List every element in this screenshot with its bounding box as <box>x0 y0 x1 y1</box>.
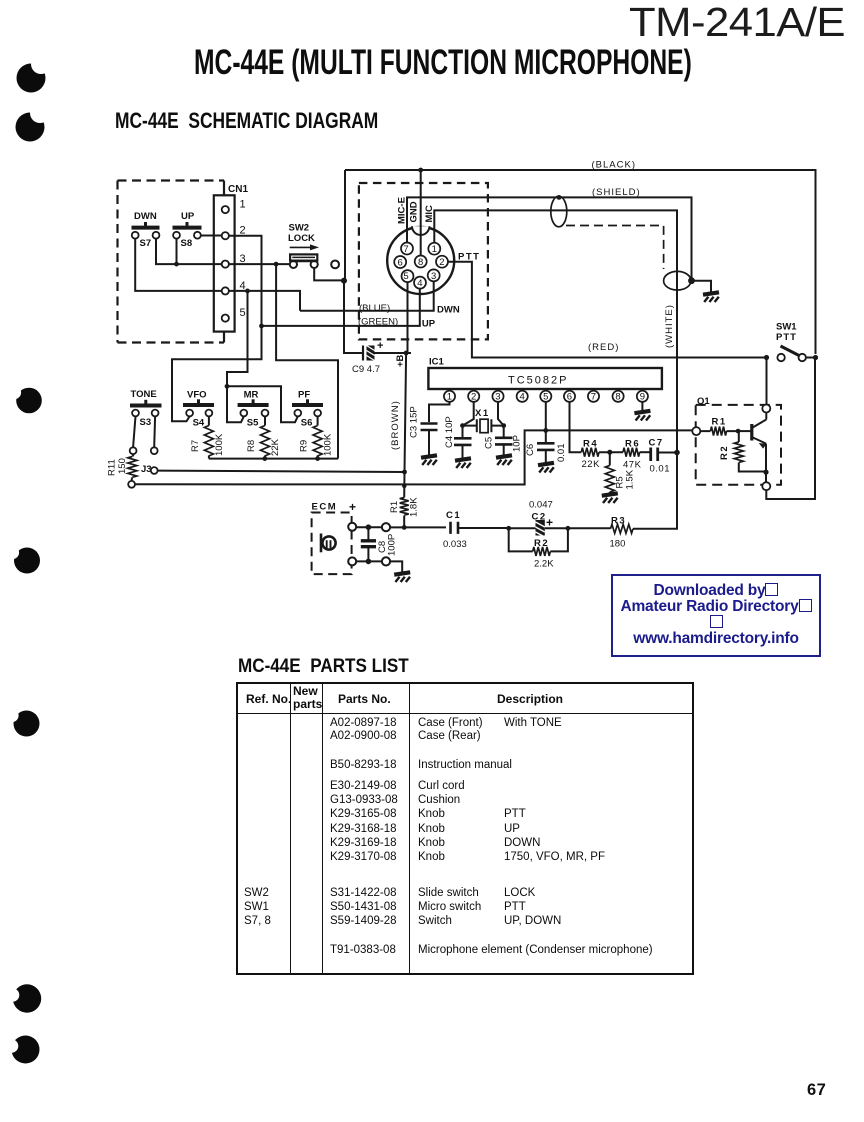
wire BLACK: pin8/GND riser top rail to SW1 right <box>345 170 816 354</box>
IC1 pin 6 <box>569 389 571 391</box>
svg-text:X1: X1 <box>475 408 490 419</box>
svg-text:6: 6 <box>567 392 572 403</box>
svg-text:C7: C7 <box>649 438 664 449</box>
svg-text:5: 5 <box>403 271 408 282</box>
svg-text:3: 3 <box>431 271 436 282</box>
wire CN1 pin3 net to SW2 <box>229 263 290 265</box>
svg-text:0.047: 0.047 <box>529 500 553 511</box>
wire SHIELD: pin7 riser right to drop <box>407 197 692 280</box>
svg-text:22K: 22K <box>582 459 601 470</box>
svg-text:0.01: 0.01 <box>556 444 567 463</box>
resistor rail (pin3 net) <box>209 458 338 460</box>
svg-text:2: 2 <box>471 392 476 403</box>
CN1 pin 4 <box>222 287 229 294</box>
subheading MC-44E SCHEMATIC DIAGRAM <box>115 108 378 134</box>
IC1 pin 5 <box>545 389 547 391</box>
svg-text:+: + <box>349 500 356 514</box>
svg-text:DWN: DWN <box>134 211 157 222</box>
wire shield to ground <box>692 281 712 292</box>
wire emitter return to SW1 right <box>766 358 815 500</box>
wire CN1 pin2 net <box>172 236 262 418</box>
svg-text:1.8K: 1.8K <box>409 497 420 517</box>
Q1 input node <box>692 427 700 435</box>
svg-text:(BLUE): (BLUE) <box>359 303 390 314</box>
wire BLUE line to mic pin3 (DWN) <box>300 281 434 311</box>
svg-text:C3 15P: C3 15P <box>409 406 420 438</box>
svg-text:8: 8 <box>615 392 620 403</box>
svg-text:7: 7 <box>403 244 408 255</box>
svg-text:(RED): (RED) <box>588 342 619 353</box>
mic connector (8-pin round) <box>387 227 454 294</box>
shield braid dashed path <box>566 226 664 270</box>
svg-text:GND: GND <box>409 201 420 222</box>
svg-text:4: 4 <box>417 278 422 289</box>
svg-text:8: 8 <box>418 257 423 268</box>
svg-text:(SHIELD): (SHIELD) <box>592 187 641 198</box>
wire SW1 to Q1 collector <box>766 358 768 405</box>
wire +B riser down <box>404 353 406 498</box>
mic pin 1 <box>428 243 440 255</box>
wire IC pin3 to C5 <box>498 402 504 426</box>
IC1 pin 3 <box>497 389 499 391</box>
svg-text:R1: R1 <box>389 501 400 513</box>
wire IC pin5 down <box>545 402 547 442</box>
dashed enclosure (microphone keys) <box>118 181 225 343</box>
svg-text:0.033: 0.033 <box>443 539 467 550</box>
audio line with input circle <box>382 523 390 531</box>
svg-text:100K: 100K <box>323 433 334 456</box>
svg-text:180: 180 <box>610 539 626 550</box>
svg-text:9: 9 <box>640 392 645 403</box>
svg-text:R9: R9 <box>299 440 310 452</box>
svg-text:DWN: DWN <box>437 305 460 316</box>
svg-text:S6: S6 <box>301 418 313 429</box>
svg-text:UP: UP <box>181 211 195 222</box>
svg-text:J3: J3 <box>141 464 152 475</box>
svg-text:MR: MR <box>244 390 259 401</box>
mic pin 2 <box>436 256 448 268</box>
mic pin 7 <box>401 243 413 255</box>
IC1 pin 4 <box>521 389 523 391</box>
CN1 pin 3 <box>222 261 229 268</box>
heading MC-44E (MULTI FUNCTION MICROPHONE) <box>194 43 692 83</box>
svg-text:5: 5 <box>240 307 246 319</box>
svg-text:S8: S8 <box>181 238 193 249</box>
wire CN1 pin4 net <box>229 291 300 311</box>
svg-text:MIC-E: MIC-E <box>397 197 408 224</box>
svg-text:C4 10P: C4 10P <box>444 416 455 448</box>
IC1 pin 8 <box>617 389 619 391</box>
svg-text:R7: R7 <box>190 440 201 452</box>
downloaded-by box <box>611 574 821 657</box>
svg-text:IC1: IC1 <box>429 357 445 368</box>
svg-text:LOCK: LOCK <box>288 233 315 244</box>
mic pin 5 <box>402 270 414 282</box>
svg-text:R11: R11 <box>107 459 118 476</box>
mic pin 4 <box>414 277 426 289</box>
Q1 emitter node <box>762 482 770 490</box>
svg-text:22K: 22K <box>270 438 281 456</box>
svg-text:C6: C6 <box>525 444 536 456</box>
wire S7 right to CN1 pin3 <box>156 239 222 265</box>
svg-text:R2: R2 <box>719 445 730 460</box>
svg-text:1: 1 <box>240 199 246 211</box>
wire +B drop from BLACK corner <box>344 170 363 353</box>
svg-text:PTT: PTT <box>776 332 797 343</box>
wire base <box>738 430 750 432</box>
wire PTT pin2 to RED line <box>448 262 767 358</box>
punch blob 3 <box>8 386 42 413</box>
node GREEN junction on pin2 net <box>259 324 264 329</box>
svg-text:100P: 100P <box>387 534 398 556</box>
CN1 pin 1 <box>222 206 229 213</box>
mic element symbol <box>322 536 335 549</box>
wire line B (R11 to Q1 input) <box>135 430 692 484</box>
wire GREEN line to mic pin4 (UP) <box>262 289 420 326</box>
svg-text:100K: 100K <box>214 433 225 456</box>
svg-text:4: 4 <box>520 392 525 403</box>
IC1 pin 7 <box>593 389 595 391</box>
svg-text:6: 6 <box>398 257 403 268</box>
svg-text:C5: C5 <box>484 437 495 449</box>
wire GND pin8 riser <box>420 170 422 256</box>
shield loop ellipse 2 <box>664 271 691 290</box>
svg-text:TC5082P: TC5082P <box>508 375 568 387</box>
svg-text:47K: 47K <box>623 460 642 471</box>
connector CN1 <box>214 195 235 331</box>
svg-text:3: 3 <box>495 392 500 403</box>
page title TM-241A/E <box>629 0 845 46</box>
svg-text:+B: +B <box>395 354 406 367</box>
transistor symbol <box>750 424 753 441</box>
svg-text:S7: S7 <box>140 238 152 249</box>
punch blob 6 <box>6 984 42 1012</box>
shield loop ellipse 1 <box>551 196 567 227</box>
svg-text:CN1: CN1 <box>228 184 248 195</box>
svg-text:2: 2 <box>439 257 444 268</box>
wire pin4 branch down to S5/S6 feed <box>227 291 248 386</box>
IC1 pin 1 <box>449 389 451 391</box>
svg-text:R1: R1 <box>712 417 727 428</box>
wire C9 to +B node <box>375 352 412 354</box>
mic pin 6 <box>394 256 406 268</box>
CN1 pin 2 <box>222 232 229 239</box>
wire S7 left to CN1 pin4 <box>135 239 222 291</box>
wire line A (J3 to +B riser) <box>158 471 405 472</box>
wire SW2 right contact to +B riser <box>314 268 344 280</box>
capacitor C9 4.7 (electrolytic) <box>362 346 364 361</box>
svg-text:S5: S5 <box>247 418 259 429</box>
punch blob 2 <box>16 103 51 142</box>
svg-text:PF: PF <box>298 390 310 401</box>
svg-text:7: 7 <box>591 392 596 403</box>
svg-text:1.5K: 1.5K <box>625 469 636 489</box>
ground (shield) <box>703 292 719 302</box>
wire S6 feed <box>227 386 298 422</box>
ECM bottom wire to ground <box>356 560 382 562</box>
wire IC pin2 to X1 <box>463 402 474 426</box>
svg-text:0.01: 0.01 <box>650 464 671 475</box>
svg-text:SW1: SW1 <box>776 322 797 333</box>
punch blob 7 <box>5 1036 40 1064</box>
mic pin 3 <box>428 269 440 281</box>
svg-text:1: 1 <box>432 244 437 255</box>
parts list title <box>238 656 409 678</box>
punch blob 5 <box>5 709 39 737</box>
ECM terminals <box>348 523 356 531</box>
page number <box>807 1081 826 1100</box>
punch blob 4 <box>6 546 40 574</box>
IC1 pin 9 <box>641 389 643 391</box>
dashed box (mic plug) <box>359 183 488 339</box>
svg-text:S4: S4 <box>193 418 205 429</box>
wire S4 feed from pin2 net <box>172 416 190 421</box>
CN1 pin 5 <box>222 315 229 322</box>
svg-text:UP: UP <box>422 319 436 330</box>
svg-text:+: + <box>377 340 383 352</box>
wire IC pin1 to C3 <box>429 402 450 422</box>
mic pin 8 <box>415 256 427 268</box>
svg-text:R8: R8 <box>246 440 257 452</box>
wire S8 right to CN1 pin2 <box>201 235 222 237</box>
punch blob 1 <box>17 54 52 93</box>
svg-text:(BLACK): (BLACK) <box>592 160 636 171</box>
svg-text:(BROWN): (BROWN) <box>390 400 401 450</box>
svg-text:150: 150 <box>117 458 128 474</box>
svg-text:ECM: ECM <box>312 502 338 513</box>
wire MIC pin1 riser to WHITE drop <box>434 210 677 525</box>
svg-text:(GREEN): (GREEN) <box>358 317 398 328</box>
wire pin3 net down to resistor rail riser <box>276 264 338 459</box>
svg-text:5: 5 <box>543 392 548 403</box>
svg-text:C9 4.7: C9 4.7 <box>352 364 380 375</box>
wire S8 left down to pin3 line <box>176 239 178 265</box>
IC1 pin 2 <box>473 389 475 391</box>
wire IC pin9 to ground <box>641 402 643 411</box>
svg-text:SW2: SW2 <box>289 223 310 234</box>
parts list table <box>236 682 694 975</box>
punch-hole blob marks on left edge <box>0 0 60 1122</box>
wire mic pin5 to +B <box>406 282 407 353</box>
svg-text:VFO: VFO <box>187 390 207 401</box>
svg-text:S3: S3 <box>140 417 152 428</box>
svg-text:10P: 10P <box>512 435 523 452</box>
svg-text:TONE: TONE <box>131 389 157 400</box>
svg-text:C1: C1 <box>446 510 461 521</box>
jack J3 <box>133 416 155 447</box>
wire IC pin6 to R4 <box>570 402 582 452</box>
svg-text:1: 1 <box>447 392 452 403</box>
svg-text:(WHITE): (WHITE) <box>664 304 675 348</box>
wire S5 feed <box>227 386 244 422</box>
svg-text:2.2K: 2.2K <box>534 559 554 570</box>
